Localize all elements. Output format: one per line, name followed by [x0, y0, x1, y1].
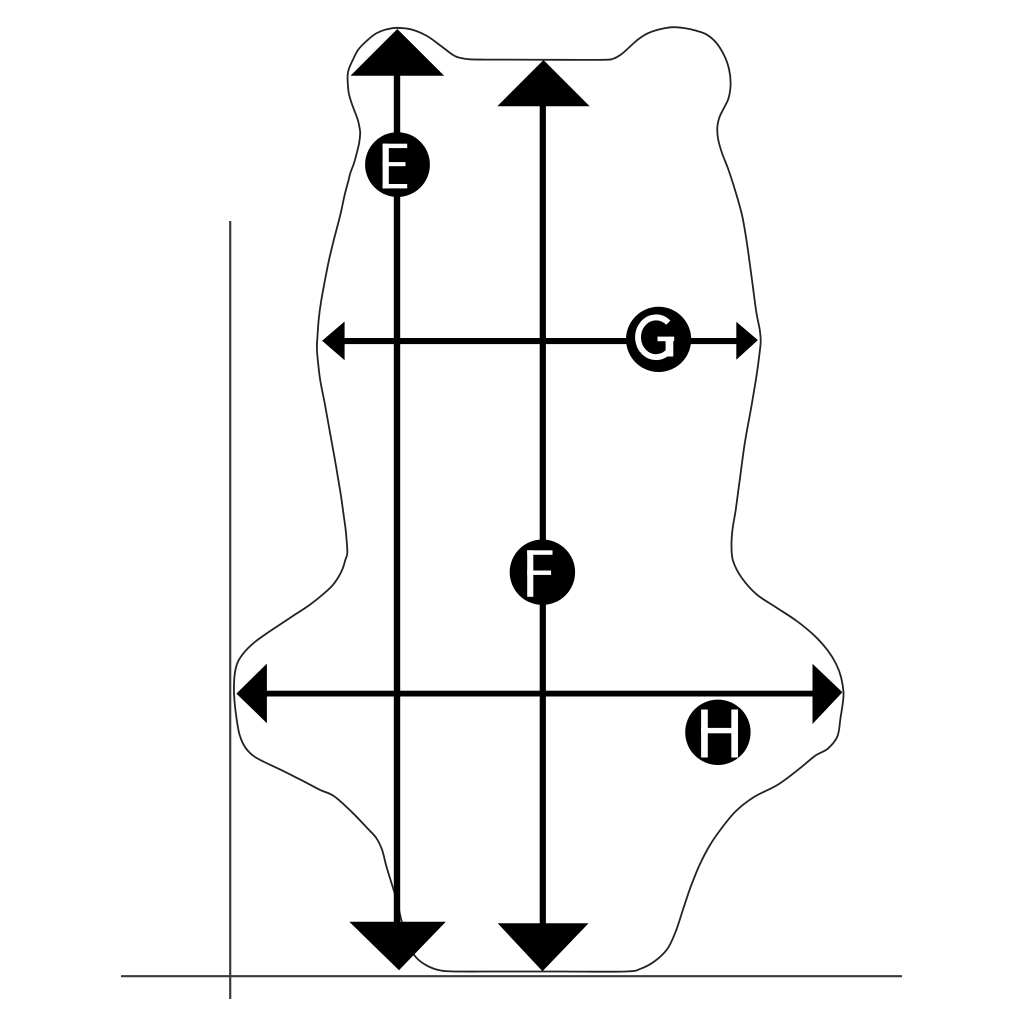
E letter: [383, 144, 408, 189]
F label circle: [510, 540, 575, 605]
H label circle: [685, 700, 750, 765]
F top arrowhead: [497, 60, 589, 106]
G label circle: [626, 307, 691, 372]
G right arrowhead: [736, 322, 758, 360]
H letter: [701, 710, 738, 758]
F letter: [527, 550, 552, 597]
E top arrowhead: [351, 29, 445, 76]
G left arrowhead: [322, 322, 345, 361]
axis vertical line: [229, 221, 231, 999]
arrow F (vertical, middle): [497, 60, 589, 971]
arrow G (horizontal, upper): [322, 322, 758, 361]
arrow E (vertical, left): [349, 29, 446, 970]
G letter: [638, 317, 674, 357]
E bottom arrowhead: [349, 922, 446, 971]
seat cover outline: [234, 27, 844, 972]
F bottom arrowhead: [498, 923, 589, 971]
E shaft: [394, 70, 400, 925]
E label circle: [365, 132, 430, 197]
axis horizontal line: [121, 975, 902, 977]
H shaft: [260, 691, 820, 697]
F shaft: [540, 100, 546, 927]
G shaft: [338, 338, 743, 344]
H left arrowhead: [236, 664, 267, 724]
H right arrowhead: [813, 664, 843, 724]
arrow H (horizontal, lower): [236, 664, 842, 724]
